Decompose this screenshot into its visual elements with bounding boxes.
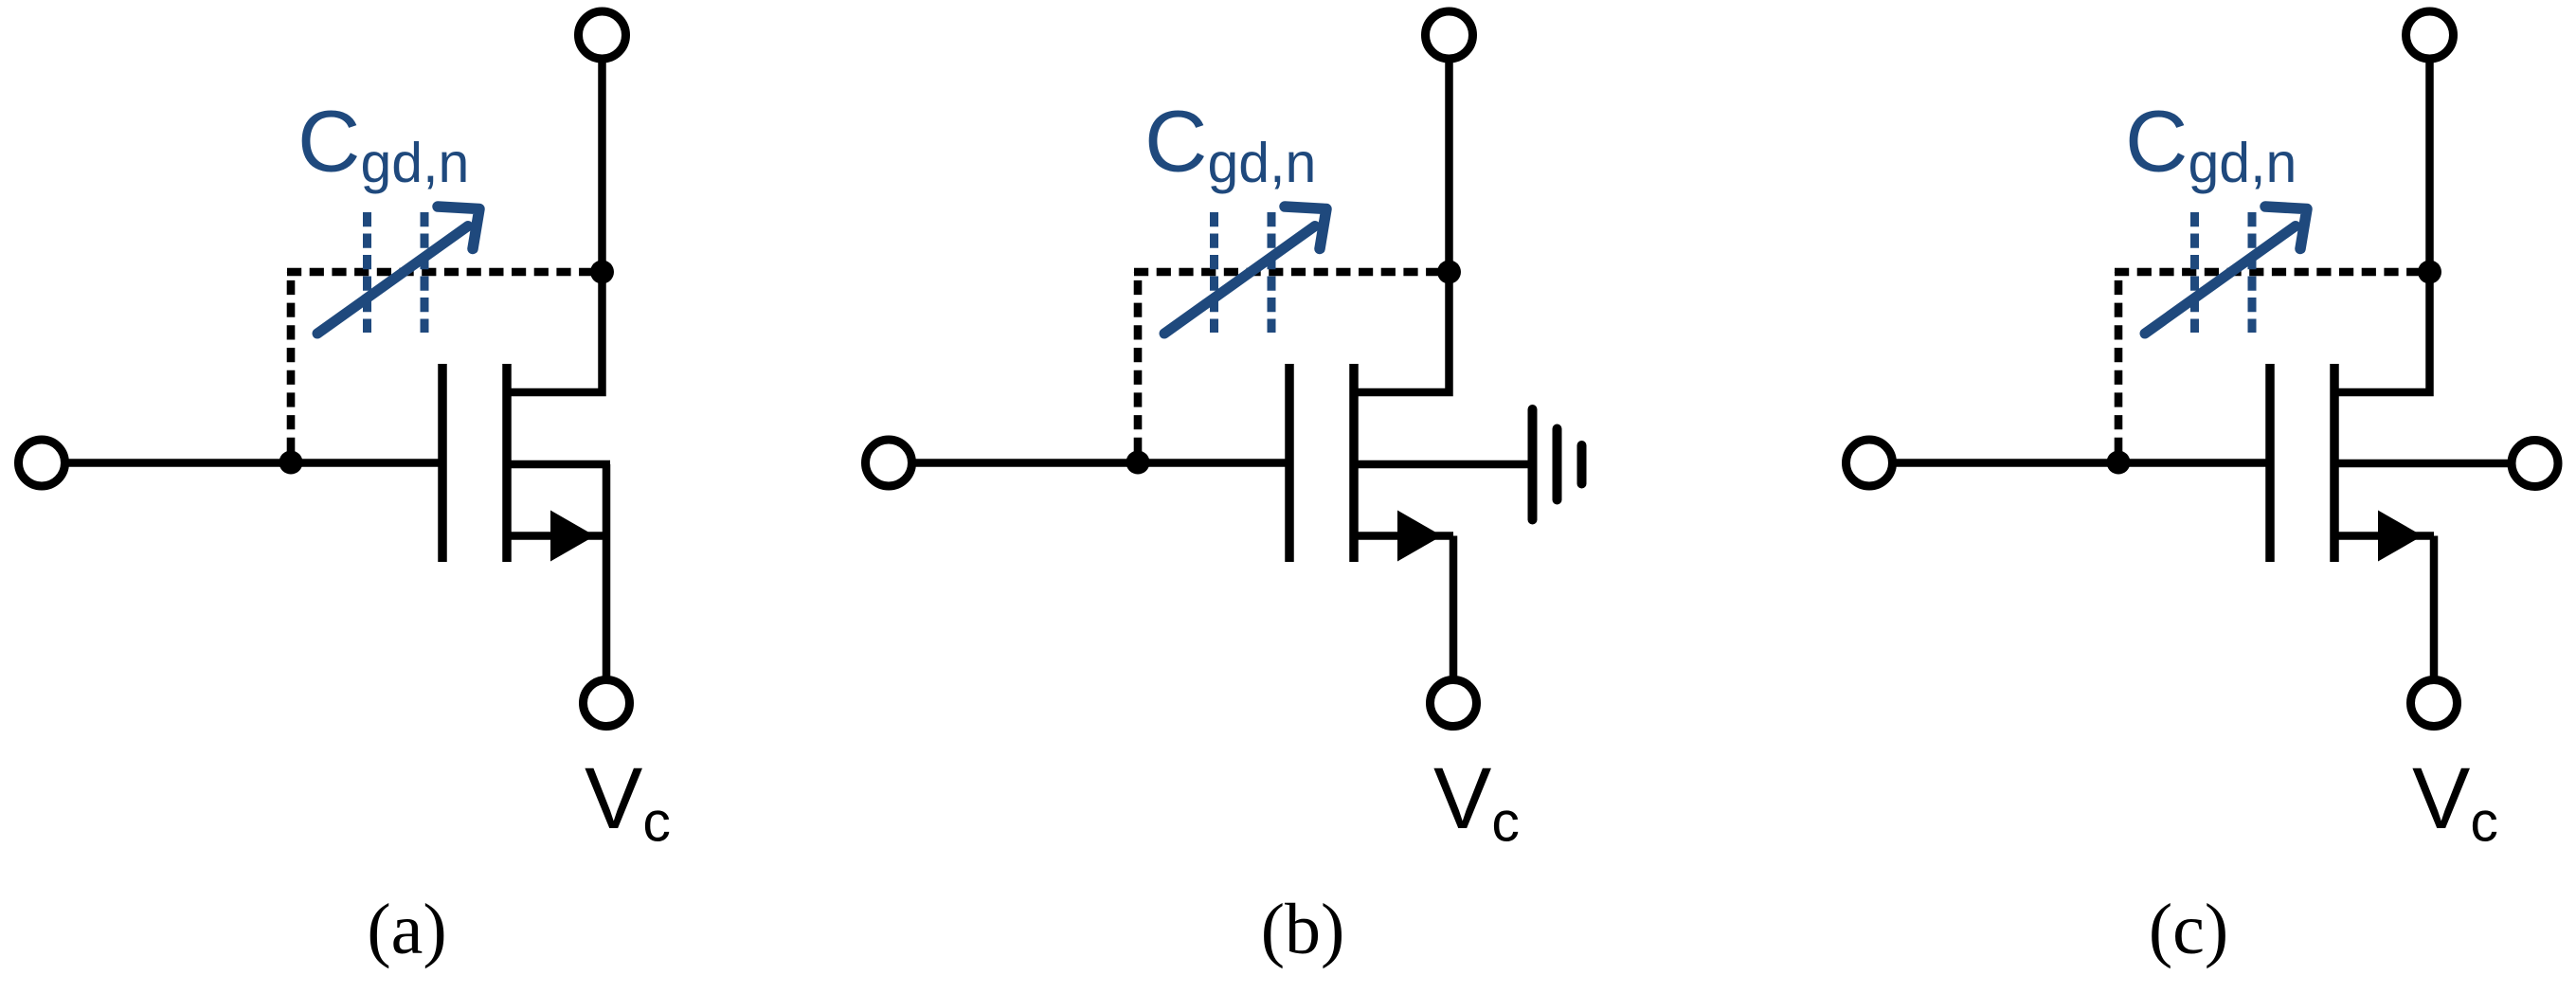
capacitor Cgd variable arrow shaft (fig a) <box>317 226 468 334</box>
capacitor Cgd plate 1 (fig a) <box>363 212 371 333</box>
capacitor Cgd plate 1 (fig b) <box>1210 212 1218 333</box>
port IN (fig c, left terminal) <box>1846 440 1893 486</box>
capacitor Cgd plate 2 (fig c) <box>2248 212 2257 333</box>
wire gate (fig b) <box>915 459 1289 467</box>
transistor M2 source stub (fig b) <box>1354 532 1453 540</box>
ground symbol bar 1 (fig b) <box>1528 409 1538 520</box>
port TOP (fig c, drain terminal) <box>2406 11 2454 59</box>
port IN (fig a, left terminal) <box>19 440 65 486</box>
transistor M3 gate bar (fig c) <box>2265 364 2275 562</box>
svg-text:(b): (b) <box>1261 890 1345 969</box>
transistor M1 bulk stub (fig a) <box>507 460 610 469</box>
port VC (fig c, bottom terminal) <box>2411 680 2458 727</box>
svg-text:(c): (c) <box>2149 890 2228 969</box>
capacitor Cgd variable arrow shaft (fig c) <box>2145 226 2296 334</box>
transistor M1 source arrow (fig a) <box>550 511 595 562</box>
wire gate (fig a) <box>68 459 442 467</box>
transistor M3 source stub (fig c) <box>2334 532 2434 540</box>
ground symbol bar 3 (fig b) <box>1577 445 1587 484</box>
transistor M2 gate bar (fig b) <box>1285 364 1294 562</box>
capacitor Cgd variable arrow head (fig c) <box>2265 207 2307 249</box>
transistor M2 bulk stub to ground (fig b) <box>1354 460 1529 469</box>
wire dashed horizontal cap-to-drain (fig c) <box>2115 268 2430 277</box>
wire source to Vc (fig c) <box>2430 536 2439 678</box>
capacitor Cgd variable arrow head (fig a) <box>438 207 479 249</box>
transistor M2 channel bar (fig b) <box>1349 364 1359 562</box>
transistor M3 bulk stub / wire to output (fig c) <box>2334 460 2508 468</box>
wire gate (fig c) <box>1896 459 2270 467</box>
transistor M1 source stub (fig a) <box>507 532 606 540</box>
port OUT (fig c, right terminal) <box>2512 441 2558 487</box>
port TOP (fig a, drain terminal) <box>579 11 626 59</box>
capacitor Cgd plate 2 (fig b) <box>1268 212 1276 333</box>
port TOP (fig b, drain terminal) <box>1426 11 1473 59</box>
wire drain (fig c) <box>2334 61 2430 392</box>
ground symbol bar 2 (fig b) <box>1553 429 1562 500</box>
capacitor Cgd variable arrow shaft (fig b) <box>1164 226 1315 334</box>
transistor M1 channel bar (fig a) <box>502 364 512 562</box>
capacitor Cgd plate 1 (fig c) <box>2190 212 2199 333</box>
wire source to Vc (fig b) <box>1450 536 1458 678</box>
wire dashed horizontal cap-to-drain (fig a) <box>287 268 603 277</box>
wire source/bulk to Vc (fig a) <box>603 464 611 677</box>
node gate junction (fig c) <box>2107 451 2131 475</box>
wire dashed horizontal cap-to-drain (fig b) <box>1134 268 1450 277</box>
node drain junction (fig b) <box>1437 261 1461 284</box>
wire drain (fig a) <box>507 61 603 392</box>
svg-text:(a): (a) <box>367 890 446 969</box>
capacitor Cgd plate 2 (fig a) <box>421 212 429 333</box>
port VC (fig a, bottom terminal) <box>584 680 630 727</box>
transistor M3 source arrow (fig c) <box>2378 511 2423 562</box>
transistor M1 gate bar (fig a) <box>438 364 447 562</box>
wire dashed vertical gate-to-cap (fig a) <box>287 272 296 452</box>
wire dashed vertical gate-to-cap (fig c) <box>2115 272 2123 452</box>
transistor M2 source arrow (fig b) <box>1397 511 1442 562</box>
node drain junction (fig c) <box>2418 261 2441 284</box>
node gate junction (fig b) <box>1126 451 1150 475</box>
node drain junction (fig a) <box>590 261 614 284</box>
port VC (fig b, bottom terminal) <box>1431 680 1477 727</box>
wire dashed vertical gate-to-cap (fig b) <box>1134 272 1143 452</box>
node gate junction (fig a) <box>279 451 303 475</box>
capacitor Cgd variable arrow head (fig b) <box>1285 207 1326 249</box>
wire drain (fig b) <box>1354 61 1450 392</box>
port IN (fig b, left terminal) <box>866 440 912 486</box>
transistor M3 channel bar (fig c) <box>2330 364 2339 562</box>
